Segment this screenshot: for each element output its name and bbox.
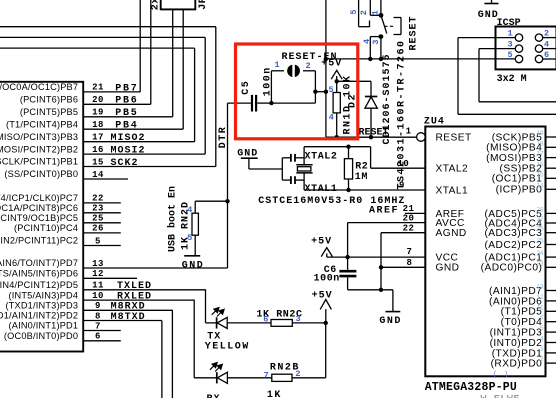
- node junction +5V/RN1D/D2: [335, 79, 339, 83]
- svg-text:10: 10: [397, 159, 409, 169]
- svg-text:16: 16: [536, 161, 544, 168]
- svg-text:PB7: PB7: [115, 83, 138, 94]
- svg-text:AGND: AGND: [436, 228, 467, 239]
- wire RX LED to RN2B: [227, 377, 271, 379]
- svg-text:15: 15: [92, 157, 104, 167]
- node junction pin3/reset wire: [379, 57, 383, 61]
- wire RN2C to +5V node: [292, 322, 325, 324]
- svg-text:8: 8: [95, 311, 101, 321]
- wire RESET to ZU4 pin 1: [326, 136, 417, 138]
- wire PB6 vertical: [150, 0, 152, 104]
- svg-text:+5V: +5V: [321, 58, 342, 69]
- svg-text:12: 12: [536, 294, 544, 301]
- node junction R2 top: [346, 145, 350, 149]
- wire RXLED vertical: [193, 300, 195, 378]
- pin 20 (PCINT6)PB6: [83, 103, 151, 105]
- svg-text:GND: GND: [182, 260, 205, 271]
- svg-text:2: 2: [306, 61, 311, 71]
- svg-text:18: 18: [92, 120, 104, 130]
- wire XTAL1 net: [304, 189, 425, 191]
- wire PB7 vertical: [139, 0, 141, 92]
- wire jumper to reset vertical: [315, 91, 326, 93]
- wire MOSI2 vertical: [204, 37, 206, 154]
- svg-text:16: 16: [92, 145, 104, 155]
- wire ICSP pin3 (SCK): [479, 48, 515, 50]
- svg-text:26: 26: [536, 226, 544, 233]
- svg-text:100n: 100n: [314, 274, 340, 285]
- svg-text:1M: 1M: [355, 172, 368, 183]
- wire C5 left: [228, 102, 251, 104]
- svg-text:1K: 1K: [267, 390, 282, 398]
- svg-text:8: 8: [407, 258, 413, 268]
- pushbutton pin 5 lead: [358, 0, 360, 27]
- svg-text:(XCK/AIN4/PCINT12)PD5: (XCK/AIN4/PCINT12)PD5: [0, 280, 78, 290]
- svg-text:2: 2: [540, 356, 544, 363]
- pin 15 (SCLK/PCINT1)PB1: [83, 166, 216, 168]
- capacitor C6: [347, 257, 349, 270]
- wire GND to resonator: [249, 168, 282, 170]
- wire MOSI2 bus from left edge: [0, 36, 205, 38]
- svg-text:27: 27: [536, 216, 544, 223]
- svg-text:GND: GND: [478, 10, 499, 21]
- svg-text:YELLOW: YELLOW: [205, 341, 250, 352]
- svg-text:19: 19: [92, 108, 104, 118]
- svg-text:SCK2: SCK2: [111, 158, 139, 169]
- node junction RN1D bottom: [335, 135, 339, 139]
- svg-text:4: 4: [540, 336, 544, 343]
- svg-text:4: 4: [544, 39, 549, 49]
- wire +5V to D2 cathode: [337, 80, 371, 82]
- node junction C5/jumper: [269, 101, 273, 105]
- svg-text:13: 13: [536, 284, 544, 291]
- svg-text:(MOSI)PB3: (MOSI)PB3: [486, 153, 542, 164]
- svg-text:( ): ( ): [494, 370, 509, 379]
- svg-text:ATMEGA328P-PU: ATMEGA328P-PU: [425, 381, 517, 394]
- node junction +5V/RN2C/RN2B: [324, 321, 328, 325]
- pin 17 (MISO/PCINT3)PB3: [83, 141, 194, 143]
- svg-text:5: 5: [349, 9, 359, 14]
- connector JP1 (2x2 header, cut at top): [161, 0, 196, 9]
- svg-text:17: 17: [536, 151, 544, 158]
- svg-text:JP1: JP1: [198, 0, 209, 10]
- wire jumper pin1 vertical: [270, 71, 272, 103]
- wire AVCC vertical: [347, 223, 349, 258]
- svg-text:ZU4: ZU4: [424, 117, 445, 128]
- label AREF wire: [405, 212, 425, 214]
- wire jumper pad right lead: [303, 70, 315, 72]
- pin 5 (AIN2/PCINT11)PC2: [83, 245, 121, 247]
- svg-text:(MOSI/PCINT2)PB2: (MOSI/PCINT2)PB2: [0, 144, 78, 154]
- svg-text:3: 3: [540, 346, 544, 353]
- pin 10 (INT5/AIN3)PD4: [83, 299, 194, 301]
- wire M8RXD vertical to bottom edge: [171, 310, 173, 398]
- node junction jumper right: [313, 90, 317, 94]
- pushbutton pin 4 vertical: [369, 37, 371, 59]
- svg-text:+5V: +5V: [312, 291, 333, 302]
- svg-text:28: 28: [536, 206, 544, 213]
- wire jumper pin2 vertical: [314, 71, 316, 103]
- LED TX (yellow) symbol: [206, 322, 217, 324]
- svg-text:6: 6: [95, 332, 101, 342]
- power +5V symbol (VCC): [321, 248, 332, 257]
- pin 25 (PCINT9/OC1B)PC5: [83, 222, 121, 224]
- wire AGND: [381, 232, 425, 234]
- wire MISO2 vertical: [194, 48, 196, 142]
- svg-text:9: 9: [399, 181, 405, 191]
- wire +5V to VCC pin: [327, 256, 426, 258]
- wire RESET vertical from top: [325, 0, 327, 137]
- svg-text:(INT5/AIN3)PD4: (INT5/AIN3)PD4: [9, 290, 79, 300]
- svg-text:(RXD)PD0: (RXD)PD0: [491, 359, 543, 370]
- svg-text:USB boot En: USB boot En: [166, 186, 178, 252]
- pin 18 (T1/PCINT4)PB4: [83, 128, 183, 130]
- ICSP pin 6 circle: [535, 55, 542, 62]
- power +5V symbol (reset pull-up): [331, 70, 342, 79]
- svg-text:(T1/PCINT4)PB4: (T1/PCINT4)PB4: [6, 119, 78, 129]
- svg-text:18: 18: [536, 140, 544, 147]
- wire C5 right to junction: [257, 102, 271, 104]
- svg-text:(OC1A/PCINT8)PC6: (OC1A/PCINT8)PC6: [0, 203, 78, 213]
- svg-text:21: 21: [92, 83, 104, 93]
- svg-text:(AIN1)PD7: (AIN1)PD7: [489, 286, 542, 297]
- svg-text:(RXD1/AIN1/INT2)PD2: (RXD1/AIN1/INT2)PD2: [0, 311, 78, 321]
- svg-text:CD1206-S01575: CD1206-S01575: [382, 53, 393, 144]
- svg-text:(TXD1/INT3)PD3: (TXD1/INT3)PD3: [5, 301, 78, 311]
- svg-text:26: 26: [92, 224, 104, 234]
- node junction D2 anode: [369, 135, 373, 139]
- svg-text:22: 22: [92, 194, 104, 204]
- pin 19 (PCINT5)PB5: [83, 116, 173, 118]
- svg-text:3: 3: [371, 39, 381, 44]
- capacitor C5 plates: [251, 95, 253, 112]
- wire ICSP pin1 (MISO): [458, 37, 515, 39]
- pushbutton pin 3 vertical: [380, 37, 382, 59]
- pushbutton S1 pin 1 vertical: [380, 0, 382, 15]
- pin 11 (XCK/AIN4/PCINT12)PD5: [83, 289, 205, 291]
- svg-text:XTAL1: XTAL1: [305, 184, 338, 195]
- pushbutton S1 pin 2 vertical: [369, 0, 371, 15]
- node lower contact: [379, 34, 384, 39]
- pushbutton lever: [381, 15, 387, 33]
- wire XTAL2 net: [304, 146, 371, 148]
- svg-text:2: 2: [359, 10, 369, 15]
- ICSP pin 6 stub: [543, 58, 556, 60]
- resonator bottom cap: [282, 179, 290, 181]
- svg-text:11: 11: [92, 281, 104, 291]
- ICSP pin 2 circle: [535, 34, 542, 41]
- svg-text:6: 6: [263, 314, 268, 324]
- svg-text:(SS/PCINT0)PB0: (SS/PCINT0)PB0: [4, 169, 78, 179]
- svg-text:MOSI2: MOSI2: [111, 146, 146, 157]
- svg-text:GND: GND: [436, 263, 460, 274]
- svg-text:25: 25: [92, 214, 104, 224]
- crystal element: [303, 147, 305, 165]
- wire DTR vertical: [227, 103, 229, 268]
- resistor RN2D body: [194, 201, 196, 213]
- pin 13 (AIN6/TO/INT7)PD7: [83, 267, 227, 269]
- svg-text:XTAL2: XTAL2: [436, 164, 469, 175]
- svg-text:(MISO/PCINT3)PB3: (MISO/PCINT3)PB3: [0, 132, 78, 142]
- node junction R2 bottom: [346, 188, 350, 192]
- wire M8TXD vertical to bottom edge: [161, 321, 163, 398]
- pin 23 (OC1A/PCINT8)PC6: [83, 212, 121, 214]
- pushbutton second pole bracket: [400, 18, 402, 35]
- pin 6 (OC0B/INT0)PD0: [83, 340, 121, 342]
- svg-text:AREF: AREF: [369, 205, 399, 216]
- svg-text:6: 6: [544, 50, 549, 60]
- svg-text:22: 22: [403, 224, 415, 234]
- LED RX symbol: [194, 377, 216, 379]
- pushbutton contact post: [369, 21, 371, 28]
- ICSP pin 5 circle: [515, 55, 522, 62]
- svg-text:1: 1: [406, 126, 412, 136]
- pin 14 (SS/PCINT0)PB0: [83, 178, 128, 180]
- svg-text:RESET: RESET: [409, 15, 420, 50]
- ICSP pin 4 circle: [535, 45, 542, 52]
- wire PB4 vertical to JP: [182, 9, 184, 129]
- svg-text:(SCLK/PCINT1)PB1: (SCLK/PCINT1)PB1: [0, 157, 78, 167]
- pin 26 (PCINT10)PC4: [83, 232, 121, 234]
- svg-text:12: 12: [92, 269, 104, 279]
- svg-text:20: 20: [92, 95, 104, 105]
- svg-text:11: 11: [537, 304, 544, 311]
- svg-text:(PCINT5)PB5: (PCINT5)PB5: [20, 107, 78, 117]
- resonator top cap: [282, 157, 290, 159]
- svg-text:(PCINT7/OC0A/OC1C)PB7: (PCINT7/OC0A/OC1C)PB7: [0, 82, 78, 92]
- svg-text:5: 5: [328, 85, 333, 95]
- IC U3 (USB controller) body: [0, 82, 83, 352]
- svg-text:C5: C5: [241, 80, 252, 95]
- resistor RN1D body: [336, 81, 338, 92]
- svg-text:23: 23: [536, 260, 544, 267]
- svg-text:23: 23: [92, 204, 104, 214]
- svg-text:5: 5: [95, 236, 101, 246]
- svg-text:(OC1)PB1: (OC1)PB1: [492, 174, 543, 185]
- pin 9 (TXD1/INT3)PD3: [83, 309, 172, 311]
- svg-text:M8TXD: M8TXD: [111, 312, 146, 323]
- solder jumper RESET-EN pads: [287, 65, 292, 77]
- svg-text:GND: GND: [379, 316, 402, 327]
- svg-text:19: 19: [536, 130, 544, 137]
- node junction reset/switch wire: [324, 57, 328, 61]
- wire RN2B to +5V node: [292, 377, 326, 379]
- wire TX LED to RN2C: [227, 322, 271, 324]
- wire MISO2 bus from left edge: [0, 47, 195, 49]
- resistor RN2C body: [271, 320, 292, 327]
- highlight red box: [236, 44, 358, 139]
- node junction DTR/RN2D: [225, 199, 229, 203]
- pin 7 (AIN0/INT1)PD1: [83, 330, 121, 332]
- svg-text:DTR: DTR: [218, 126, 229, 149]
- wire +5V node down to RN2B: [325, 323, 327, 378]
- svg-text:PB6: PB6: [115, 96, 138, 107]
- resistor RN2B body: [272, 374, 292, 381]
- svg-text:(PCINT6)PB6: (PCINT6)PB6: [20, 95, 78, 105]
- wire RESET row to ICSP pin5: [326, 58, 516, 60]
- svg-text:24: 24: [536, 250, 544, 257]
- svg-text:7: 7: [95, 321, 101, 331]
- svg-text:(INT1)PD3: (INT1)PD3: [490, 328, 543, 339]
- IC ZU4 body: [425, 127, 545, 377]
- wire C6 bottom to GND: [348, 289, 393, 291]
- wire TXLED vertical: [205, 289, 207, 323]
- ICSP pin 4 stub: [543, 48, 556, 50]
- wire GND pin 8: [381, 266, 425, 268]
- supply GND symbol (ZU4): [392, 290, 394, 312]
- pushbutton tie bar bottom: [370, 36, 381, 38]
- node junction AGND/GND wire: [379, 288, 383, 292]
- connector ICSP body: [496, 27, 556, 70]
- wire AVCC: [348, 222, 426, 224]
- node junction pin4/reset wire: [368, 57, 372, 61]
- svg-text:13: 13: [92, 259, 104, 269]
- pin 1 RESET bubble: [417, 133, 426, 142]
- svg-text:(OC0B/INT0)PD0: (OC0B/INT0)PD0: [4, 331, 78, 341]
- supply GND symbol (ICSP): [491, 0, 493, 3]
- ICSP pin 1 circle: [515, 34, 522, 41]
- resistor R2 body: [348, 147, 350, 159]
- wire jumper bottom: [271, 102, 315, 104]
- diode D2: [370, 81, 372, 96]
- svg-text:(AIN2/PCINT11)PC2: (AIN2/PCINT11)PC2: [0, 236, 78, 246]
- svg-text:XTAL1: XTAL1: [436, 185, 469, 196]
- svg-text:3x2 M: 3x2 M: [497, 74, 527, 85]
- svg-text:W.ELWE: W.ELWE: [481, 394, 521, 398]
- svg-text:14: 14: [536, 182, 544, 189]
- pushbutton tie bar top: [370, 14, 381, 16]
- LED TX emission arrows: [212, 308, 224, 317]
- svg-text:15: 15: [536, 171, 544, 178]
- svg-text:4: 4: [329, 113, 334, 123]
- pin 12 (CTS/AIN5/INT6)PD6: [83, 277, 137, 279]
- svg-text:1: 1: [371, 10, 381, 15]
- svg-text:(ADC2)PC2: (ADC2)PC2: [484, 240, 542, 251]
- svg-text:(CTS/AIN5/INT6)PD6: (CTS/AIN5/INT6)PD6: [0, 269, 78, 279]
- svg-text:(T0)PD4: (T0)PD4: [501, 317, 543, 328]
- pin 21 (PCINT7/OC0A/OC1C)PB7: [83, 91, 140, 93]
- node pivot contact: [379, 13, 384, 18]
- wire AGND vertical: [380, 233, 382, 290]
- wire SCK2 bus from left edge: [0, 26, 216, 28]
- svg-text:2: 2: [544, 28, 549, 38]
- node junction reset vertical: [324, 90, 328, 94]
- svg-text:7: 7: [264, 370, 269, 380]
- svg-text:20: 20: [403, 213, 415, 223]
- svg-text:4: 4: [187, 205, 192, 215]
- svg-text:5: 5: [187, 233, 192, 243]
- svg-text:5: 5: [540, 325, 544, 332]
- svg-text:(INT0)PD2: (INT0)PD2: [490, 338, 543, 349]
- svg-text:2x2: 2x2: [151, 0, 162, 10]
- svg-text:5: 5: [507, 50, 512, 60]
- svg-text:(AIN0/INT1)PD1: (AIN0/INT1)PD1: [9, 321, 79, 331]
- svg-text:(ADC3)PC3: (ADC3)PC3: [484, 228, 542, 239]
- svg-text:25: 25: [536, 238, 544, 245]
- svg-text:XTAL2: XTAL2: [305, 151, 338, 162]
- resonator left vertical: [281, 158, 283, 180]
- svg-text:RX: RX: [207, 394, 221, 398]
- svg-text:+5V: +5V: [311, 236, 332, 247]
- svg-text:(ADC0)PC0): (ADC0)PC0): [481, 263, 543, 274]
- svg-text:PB4: PB4: [115, 121, 138, 132]
- wire jumper pad left lead: [271, 70, 284, 72]
- svg-text:1: 1: [274, 60, 279, 70]
- power +5V symbol (LEDs): [320, 300, 331, 310]
- pin 8 (RXD1/AIN1/INT2)PD2: [83, 320, 162, 322]
- svg-text:(AIN0)PD6: (AIN0)PD6: [489, 296, 542, 307]
- svg-text:(PCINT9/OC1B)PC5: (PCINT9/OC1B)PC5: [0, 213, 78, 223]
- wire RN2D top: [195, 200, 227, 202]
- svg-text:PB5: PB5: [115, 108, 138, 119]
- svg-text:(AIN6/TO/INT7)PD7: (AIN6/TO/INT7)PD7: [0, 258, 78, 268]
- svg-text:10: 10: [92, 291, 104, 301]
- wire SCK2 vertical: [215, 27, 217, 167]
- svg-text:6: 6: [540, 315, 544, 322]
- svg-text:MISO2: MISO2: [111, 133, 146, 144]
- svg-text:(PCINT10)PC4: (PCINT10)PC4: [14, 223, 78, 233]
- LED RX emission arrows: [210, 363, 222, 372]
- pin 16 (MOSI/PCINT2)PB2: [83, 153, 205, 155]
- wire PB5 vertical to JP: [172, 9, 174, 116]
- node junction C6 top: [345, 255, 349, 259]
- svg-text:7: 7: [407, 247, 413, 257]
- svg-text:14: 14: [92, 170, 104, 180]
- pin 22 (INT4/ICP1/CLK0)PC7: [83, 202, 121, 204]
- svg-text:(ICP)PB0: (ICP)PB0: [496, 185, 543, 196]
- node junction GND pin wire: [379, 265, 383, 269]
- ICSP pin 2 stub: [543, 37, 556, 39]
- supply GND symbol (RN2D): [184, 255, 200, 257]
- svg-text:9: 9: [95, 301, 101, 311]
- ICSP pin 3 circle: [515, 45, 522, 52]
- svg-text:RESET: RESET: [436, 132, 472, 143]
- svg-text:(INT4/ICP1/CLK0)PC7: (INT4/ICP1/CLK0)PC7: [0, 193, 78, 203]
- pushbutton second pole dashed link: [384, 25, 393, 27]
- svg-text:17: 17: [92, 133, 104, 143]
